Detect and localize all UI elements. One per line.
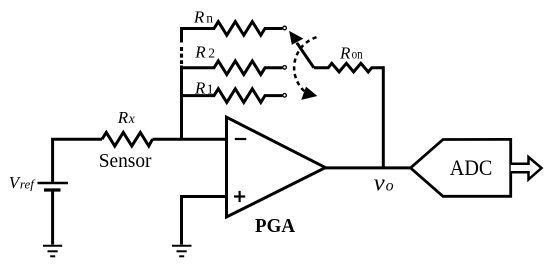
wire Vref to Rx input: [53, 139, 102, 182]
node terminal R2: [283, 66, 287, 70]
svg-text:R: R: [117, 108, 129, 127]
svg-text:on: on: [352, 47, 363, 62]
svg-text:2: 2: [208, 45, 215, 60]
resistor R2: [182, 61, 283, 75]
wire Rx to opamp: [153, 138, 227, 141]
svg-text:ref: ref: [20, 177, 36, 191]
node terminal Rn: [283, 26, 287, 30]
wire plus input: [182, 197, 227, 245]
wire left bus solid bottom: [180, 66, 183, 140]
wire Ron to output node: [382, 66, 385, 168]
node terminal R1: [283, 94, 287, 98]
wire bus to Rn: [182, 29, 215, 43]
svg-text:x: x: [128, 111, 135, 126]
svg-text:R: R: [193, 7, 205, 26]
opamp minus sign: [235, 138, 247, 140]
ADC block: [411, 139, 511, 196]
wire left bus dotted segment: [180, 47, 183, 64]
svg-text:Sensor: Sensor: [99, 150, 152, 172]
svg-text:PGA: PGA: [255, 215, 296, 237]
switch arm SW: [297, 43, 314, 68]
switch arm arrowhead: [290, 32, 303, 44]
svg-text:R: R: [194, 42, 206, 61]
resistor Rn: [212, 22, 282, 36]
wire battery to ground: [51, 190, 54, 245]
wire output: [325, 166, 411, 169]
svg-text:v: v: [374, 169, 385, 196]
svg-text:o: o: [386, 177, 394, 194]
resistor R1: [182, 89, 283, 103]
svg-text:1: 1: [207, 82, 214, 97]
svg-text:n: n: [206, 10, 213, 25]
opamp plus sign: [234, 191, 245, 202]
battery Vref long plate: [38, 182, 69, 185]
op-amp U1 PGA: [227, 117, 326, 217]
battery Vref short plate: [44, 188, 61, 191]
output block arrow: [511, 157, 542, 180]
ground G2: [172, 245, 192, 247]
resistor Ron: [314, 63, 384, 72]
svg-text:R: R: [194, 79, 206, 98]
ground G1: [43, 245, 62, 247]
switch rotation dashed arc: [294, 37, 316, 93]
switch arc arrowhead: [302, 88, 316, 100]
resistor Rx: [102, 132, 153, 146]
svg-text:ADC: ADC: [450, 155, 493, 180]
svg-text:R: R: [339, 44, 351, 63]
